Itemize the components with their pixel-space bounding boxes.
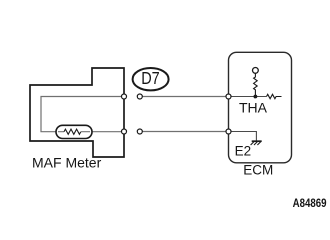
svg-text:E2: E2 [235,144,252,159]
svg-text:A84869: A84869 [293,198,327,210]
svg-text:MAF Meter: MAF Meter [32,155,102,171]
svg-text:D7: D7 [141,68,160,88]
svg-text:THA: THA [239,99,268,115]
svg-text:ECM: ECM [243,163,273,178]
